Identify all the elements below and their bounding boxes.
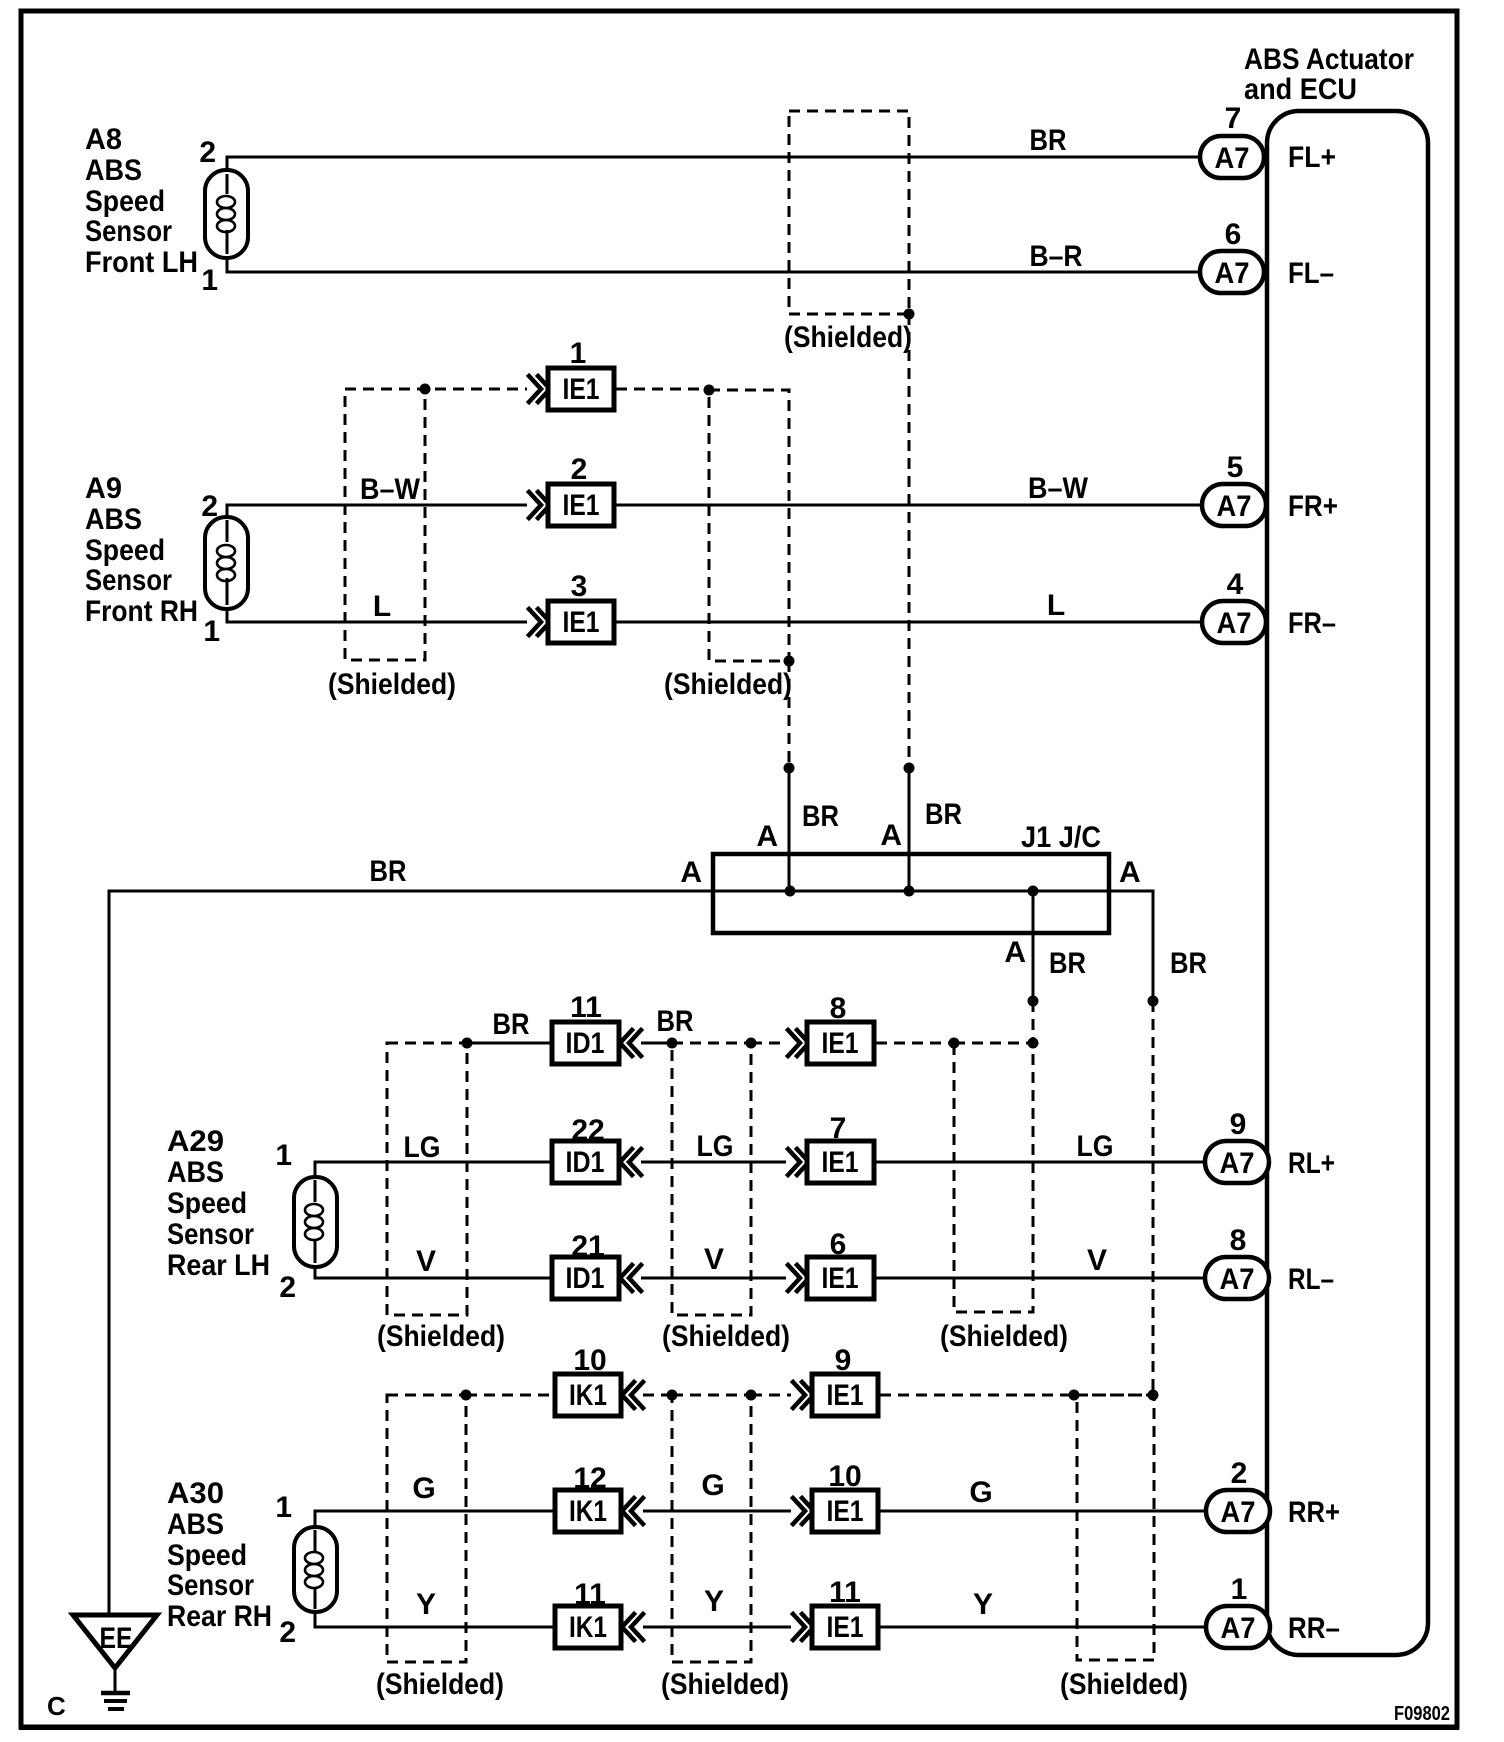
svg-text:BR: BR — [1030, 124, 1067, 157]
svg-text:ABS Actuator: ABS Actuator — [1244, 43, 1414, 76]
svg-text:Sensor: Sensor — [85, 564, 172, 597]
svg-text:12: 12 — [573, 1462, 606, 1495]
connector A7 pin1 RR- — [1206, 1573, 1340, 1648]
svg-text:LG: LG — [697, 1130, 734, 1163]
svg-text:A: A — [1119, 856, 1141, 889]
wire RR+ G (A30 pin1 to IK1 pin12 to IE1 pin10 to A7 pin2) — [315, 1469, 1206, 1550]
svg-text:(Shielded): (Shielded) — [328, 668, 456, 701]
svg-text:B–R: B–R — [1030, 240, 1083, 273]
svg-text:Y: Y — [416, 1588, 436, 1621]
svg-text:9: 9 — [835, 1344, 852, 1377]
svg-text:(Shielded): (Shielded) — [376, 1668, 504, 1701]
connector IK1 pin12 (G) — [555, 1462, 643, 1532]
svg-text:IE1: IE1 — [827, 1495, 864, 1528]
svg-text:11: 11 — [574, 1578, 606, 1611]
connector IE1 pin11 (Y) — [793, 1576, 878, 1648]
svg-text:FL–: FL– — [1288, 257, 1334, 290]
shielded box rear LH middle — [662, 1043, 790, 1353]
svg-text:A30: A30 — [167, 1477, 224, 1510]
connector IE1 pin1 (front shield drain) — [529, 337, 614, 410]
svg-text:1: 1 — [203, 615, 220, 648]
connector IE1 pin10 (G) — [793, 1460, 878, 1532]
connector IK1 pin10 (shield drain) — [555, 1344, 643, 1416]
svg-text:IE1: IE1 — [827, 1611, 864, 1644]
svg-text:A7: A7 — [1221, 1612, 1256, 1645]
svg-text:A: A — [880, 819, 902, 852]
svg-text:BR: BR — [802, 800, 839, 833]
svg-text:FR+: FR+ — [1288, 490, 1338, 523]
svg-text:3: 3 — [571, 570, 588, 603]
svg-text:2: 2 — [279, 1271, 296, 1304]
wire FL+ BR (A8 pin2 to A7 pin7) — [227, 124, 1204, 194]
svg-text:(Shielded): (Shielded) — [940, 1320, 1068, 1353]
svg-text:V: V — [704, 1243, 724, 1276]
svg-text:2: 2 — [199, 136, 216, 169]
svg-text:Front LH: Front LH — [85, 246, 198, 279]
connector ID1 pin11 (shield drain BR) — [552, 991, 641, 1064]
connector IE1 pin6 (V) — [788, 1228, 874, 1299]
svg-text:ABS: ABS — [85, 503, 142, 536]
svg-text:9: 9 — [1230, 1108, 1247, 1141]
wire FR+ B-W (A9 pin2 to IE1 pin2 to A7 pin5) — [227, 472, 1204, 541]
svg-text:Sensor: Sensor — [167, 1218, 254, 1251]
svg-text:G: G — [412, 1472, 435, 1505]
svg-text:22: 22 — [571, 1114, 604, 1147]
svg-text:J1 J/C: J1 J/C — [1021, 821, 1101, 854]
svg-text:Front RH: Front RH — [85, 595, 198, 628]
node A (RL drain from J1) — [1004, 886, 1086, 1044]
svg-text:A7: A7 — [1215, 142, 1250, 175]
svg-text:L: L — [1047, 589, 1065, 622]
wire rear RH shield drain row (dashed, IK1 pin10 to IE1 pin9) — [387, 1390, 1159, 1401]
svg-text:7: 7 — [1225, 102, 1242, 135]
ECU block: ABS Actuator and ECU — [1244, 43, 1428, 1655]
svg-text:RL–: RL– — [1288, 1263, 1334, 1296]
svg-text:6: 6 — [1225, 218, 1242, 251]
sensor A30 ABS Speed Sensor Rear RH — [167, 1477, 337, 1649]
wire rear LH shield drain row (BR dashed, ID1 pin11 to IE1 pin8) — [387, 1005, 1039, 1049]
connector IK1 pin11 (Y) — [555, 1578, 643, 1648]
shielded box rear RH left — [376, 1395, 504, 1701]
svg-text:EE: EE — [100, 1622, 133, 1655]
svg-text:IK1: IK1 — [569, 1379, 607, 1412]
shielded box A9 right — [664, 385, 795, 702]
svg-text:V: V — [416, 1245, 436, 1278]
svg-text:IE1: IE1 — [563, 606, 600, 639]
wire shield drain row IE1 pin1 (dashed) — [345, 388, 709, 391]
svg-text:IE1: IE1 — [563, 489, 600, 522]
svg-text:A7: A7 — [1220, 1147, 1255, 1180]
svg-text:A8: A8 — [85, 123, 122, 156]
junction block J1 J/C — [713, 821, 1109, 933]
svg-text:A9: A9 — [85, 472, 122, 505]
svg-text:ID1: ID1 — [566, 1146, 605, 1179]
svg-text:5: 5 — [1227, 451, 1244, 484]
svg-text:A7: A7 — [1217, 490, 1252, 523]
sensor A9 ABS Speed Sensor Front RH — [85, 472, 248, 648]
svg-text:A: A — [756, 820, 778, 853]
svg-text:Y: Y — [973, 1588, 993, 1621]
svg-text:ABS: ABS — [167, 1156, 224, 1189]
svg-text:and ECU: and ECU — [1244, 73, 1357, 106]
sensor A29 ABS Speed Sensor Rear LH — [167, 1125, 337, 1304]
svg-text:BR: BR — [370, 855, 407, 888]
svg-text:Rear RH: Rear RH — [167, 1600, 272, 1633]
wire RR- Y (A30 pin2 to IK1 pin11 to IE1 pin11 to A7 pin1) — [315, 1585, 1206, 1627]
svg-text:4: 4 — [1227, 568, 1244, 601]
svg-text:2: 2 — [201, 490, 218, 523]
svg-text:(Shielded): (Shielded) — [377, 1320, 505, 1353]
svg-text:C: C — [47, 1691, 66, 1721]
svg-text:IE1: IE1 — [822, 1262, 859, 1295]
svg-text:FR–: FR– — [1288, 607, 1336, 640]
svg-text:A7: A7 — [1215, 257, 1250, 290]
wire BR ground bus (EE to J1 to RR drain) — [109, 855, 1153, 1615]
svg-text:L: L — [373, 590, 391, 623]
svg-text:8: 8 — [1230, 1224, 1247, 1257]
svg-text:Y: Y — [704, 1585, 724, 1618]
svg-text:IE1: IE1 — [822, 1146, 859, 1179]
svg-text:BR: BR — [1049, 947, 1086, 980]
svg-text:ID1: ID1 — [566, 1262, 605, 1295]
connector A7 pin9 RL+ — [1205, 1108, 1335, 1183]
svg-text:A7: A7 — [1220, 1263, 1255, 1296]
svg-text:Rear LH: Rear LH — [167, 1249, 270, 1282]
svg-text:G: G — [701, 1469, 724, 1502]
svg-text:A: A — [1004, 936, 1026, 969]
svg-text:10: 10 — [573, 1344, 606, 1377]
svg-text:Speed: Speed — [167, 1539, 247, 1572]
connector A7 pin6 FL- — [1200, 218, 1334, 293]
svg-text:2: 2 — [1231, 1457, 1248, 1490]
connector IE1 pin2 (B-W) — [529, 453, 614, 526]
svg-text:RL+: RL+ — [1288, 1147, 1335, 1180]
shielded box A9 left — [328, 384, 456, 702]
connector ID1 pin21 (V) — [552, 1230, 641, 1299]
svg-text:(Shielded): (Shielded) — [661, 1668, 789, 1701]
svg-text:(Shielded): (Shielded) — [1060, 1668, 1188, 1701]
svg-text:(Shielded): (Shielded) — [784, 321, 912, 354]
svg-text:10: 10 — [828, 1460, 861, 1493]
svg-text:A7: A7 — [1217, 607, 1252, 640]
svg-text:BR: BR — [1170, 947, 1207, 980]
connector A7 pin7 FL+ — [1200, 102, 1336, 178]
wire FR- L (A9 pin1 to IE1 pin3 to A7 pin4) — [227, 577, 1204, 623]
svg-text:LG: LG — [404, 1131, 441, 1164]
svg-text:1: 1 — [275, 1491, 292, 1524]
connector A7 pin8 RL- — [1205, 1224, 1334, 1299]
svg-text:A29: A29 — [167, 1125, 224, 1158]
svg-text:B–W: B–W — [1028, 472, 1089, 505]
svg-text:1: 1 — [570, 337, 587, 370]
svg-text:IE1: IE1 — [822, 1027, 859, 1060]
svg-text:(Shielded): (Shielded) — [664, 668, 792, 701]
shielded box rear LH right — [940, 1043, 1068, 1353]
svg-text:A: A — [680, 856, 702, 889]
svg-text:ID1: ID1 — [566, 1027, 605, 1060]
svg-text:1: 1 — [1231, 1573, 1248, 1606]
wire FL- B-R (A8 pin1 to A7 pin6) — [227, 230, 1204, 273]
svg-text:Sensor: Sensor — [85, 215, 172, 248]
svg-text:BR: BR — [493, 1008, 530, 1041]
svg-text:IE1: IE1 — [563, 373, 600, 406]
svg-text:11: 11 — [829, 1576, 861, 1609]
sensor A8 ABS Speed Sensor Front LH — [85, 123, 248, 297]
shield drain wire A8 (dashed then solid to J1) — [880, 314, 962, 897]
connector IE1 pin7 (LG) — [788, 1112, 874, 1183]
svg-text:LG: LG — [1077, 1130, 1114, 1163]
svg-text:RR–: RR– — [1288, 1612, 1340, 1645]
svg-text:1: 1 — [201, 264, 218, 297]
connector IE1 pin8 (shield drain BR) — [788, 992, 874, 1064]
svg-text:ABS: ABS — [85, 154, 142, 187]
svg-text:8: 8 — [830, 992, 847, 1025]
svg-text:21: 21 — [571, 1230, 604, 1263]
svg-text:(Shielded): (Shielded) — [662, 1320, 790, 1353]
shielded box rear LH left — [377, 1043, 505, 1353]
connector ID1 pin22 (LG) — [552, 1114, 641, 1183]
svg-text:G: G — [969, 1476, 992, 1509]
svg-text:Sensor: Sensor — [167, 1569, 254, 1602]
svg-text:1: 1 — [275, 1139, 292, 1172]
connector IE1 pin3 (L) — [529, 570, 614, 643]
shield drain wire A9 (dashed then solid to J1) — [756, 661, 839, 897]
svg-text:F09802: F09802 — [1394, 1703, 1450, 1725]
connector IE1 pin9 (shield drain) — [793, 1344, 878, 1416]
svg-text:B–W: B–W — [360, 473, 421, 506]
svg-text:2: 2 — [571, 453, 588, 486]
svg-text:2: 2 — [279, 1616, 296, 1649]
wire RL- V (A29 pin2 to ID1 pin21 to IE1 pin6 to A7 pin8) — [315, 1243, 1206, 1278]
connector A7 pin5 FR+ — [1202, 451, 1338, 526]
svg-text:Speed: Speed — [167, 1187, 247, 1220]
svg-text:IK1: IK1 — [569, 1611, 607, 1644]
svg-text:IK1: IK1 — [569, 1495, 607, 1528]
connector A7 pin2 RR+ — [1206, 1457, 1340, 1532]
ground EE — [73, 1615, 157, 1709]
svg-text:6: 6 — [830, 1228, 847, 1261]
svg-text:IE1: IE1 — [827, 1379, 864, 1412]
svg-text:A7: A7 — [1221, 1496, 1256, 1529]
svg-text:BR: BR — [925, 798, 962, 831]
shielded box rear RH right — [1060, 1395, 1188, 1701]
wire RL+ LG (A29 pin1 to ID1 pin22 to IE1 pin7 to A7 pin9) — [315, 1130, 1206, 1200]
shielded box rear RH middle — [661, 1395, 789, 1701]
svg-text:7: 7 — [830, 1112, 847, 1145]
svg-text:BR: BR — [657, 1005, 694, 1038]
svg-text:RR+: RR+ — [1288, 1496, 1340, 1529]
svg-text:ABS: ABS — [167, 1508, 224, 1541]
svg-text:V: V — [1087, 1244, 1107, 1277]
svg-text:Speed: Speed — [85, 534, 165, 567]
connector A7 pin4 FR- — [1202, 568, 1336, 643]
svg-text:Speed: Speed — [85, 185, 165, 218]
node A (RR drain right) — [1148, 947, 1208, 1395]
shielded box A8 front LH — [784, 111, 915, 354]
svg-text:FL+: FL+ — [1288, 141, 1336, 174]
svg-text:11: 11 — [570, 991, 602, 1024]
